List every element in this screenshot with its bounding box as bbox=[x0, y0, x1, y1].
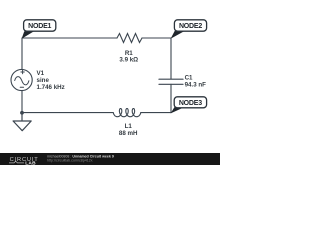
node NODE1 tail bbox=[22, 31, 34, 39]
svg-text:3.9 kΩ: 3.9 kΩ bbox=[119, 56, 138, 63]
svg-text:LAB: LAB bbox=[25, 161, 36, 165]
voltage source V1 bbox=[11, 69, 32, 90]
wire top: R1 to node2 corner bbox=[142, 37, 171, 39]
svg-text:NODE2: NODE2 bbox=[179, 23, 202, 30]
wire left upper: node1 corner to V1 bbox=[21, 38, 23, 70]
wire bottom left: L1 to junction bbox=[22, 112, 113, 114]
inductor L1 bbox=[113, 109, 141, 117]
node NODE1 box bbox=[24, 20, 56, 31]
svg-text:NODE3: NODE3 bbox=[179, 100, 202, 107]
svg-text:V1: V1 bbox=[37, 70, 45, 77]
node NODE3 box bbox=[174, 97, 206, 108]
node NODE3 tail bbox=[171, 107, 185, 114]
footer logo wave+LAB bbox=[9, 161, 24, 163]
svg-text:1.746 kHz: 1.746 kHz bbox=[37, 84, 65, 91]
wire right lower: C1 to node3 corner bbox=[170, 84, 172, 112]
footer bar bbox=[0, 153, 220, 165]
wire right upper: node2 corner to C1 bbox=[170, 38, 172, 79]
node NODE2 box bbox=[174, 20, 206, 31]
node NODE2 tail bbox=[171, 31, 185, 39]
resistor R1 bbox=[117, 34, 142, 43]
junction dot bbox=[20, 111, 24, 115]
wire left lower: V1 to junction bbox=[21, 91, 23, 113]
label V1 bbox=[37, 50, 207, 137]
svg-text:sine: sine bbox=[37, 77, 50, 84]
wire top: node1 corner to R1 bbox=[22, 37, 117, 39]
svg-text:http://circuitlab.com/c8p412x: http://circuitlab.com/c8p412x bbox=[47, 158, 93, 162]
capacitor C1 bbox=[159, 79, 183, 84]
ground bbox=[13, 113, 31, 131]
svg-text:L1: L1 bbox=[125, 123, 133, 130]
svg-text:NODE1: NODE1 bbox=[28, 23, 51, 30]
svg-text:88 mH: 88 mH bbox=[119, 130, 138, 137]
svg-text:94.3 nF: 94.3 nF bbox=[185, 81, 207, 88]
wire bottom right: node3 corner to L1 bbox=[141, 112, 171, 114]
